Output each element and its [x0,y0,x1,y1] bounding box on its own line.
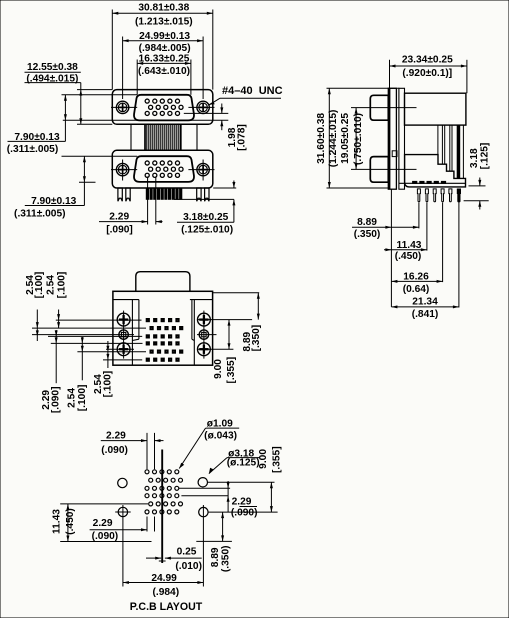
through-hole pins below base (6) [417,189,452,202]
rotated 1.98 [.078] [227,124,248,151]
svg-text:16.33±0.25: 16.33±0.25 [139,53,190,64]
left dim verticals/leaders [58,310,60,329]
svg-text:(.450): (.450) [65,508,76,535]
upper shell top/bottom extensions left [62,94,138,96]
plate notch above lower shell [392,151,397,157]
dim 16.33 extension lines [136,60,138,95]
svg-text:3.18±0.25: 3.18±0.25 [183,212,229,223]
right dim verticals [257,293,259,320]
upper shell pin holes (15) [145,99,183,115]
svg-text:(.494±.015): (.494±.015) [26,73,78,84]
rear hood [136,272,190,292]
svg-text:ø1.09: ø1.09 [207,418,233,429]
dim 2.29 pitch extension verticals [147,177,149,225]
svg-text:2.29: 2.29 [106,431,126,442]
leader o1.09 [206,427,240,429]
ear steps [113,299,139,301]
svg-text:(.010): (.010) [175,561,202,572]
svg-text:24.99±0.13: 24.99±0.13 [139,31,190,42]
top 2.29 dim line [101,440,147,442]
svg-text:2.29: 2.29 [232,496,252,507]
svg-text:(.450): (.450) [395,251,422,262]
dim 1.98 reference lines [184,112,229,114]
flange plate A [388,88,396,189]
pcb arrowheads [66,439,273,584]
rear screws left column [117,313,210,355]
svg-text:(.311±.005): (.311±.005) [14,209,65,220]
svg-text:[.355]: [.355] [272,446,283,473]
dim 2.29 line [99,221,148,223]
right reference lines [213,292,260,294]
dim 12.55 vertical [80,83,82,125]
left board lock prongs [118,188,209,201]
svg-text:(.311±.005): (.311±.005) [7,144,58,155]
svg-text:(1.213±.015): (1.213±.015) [135,16,193,27]
svg-text:(ø.043): (ø.043) [204,430,237,441]
upper connector bent pins descending [438,125,464,178]
24.99 dim line [123,582,203,584]
dim 3.18 pin length references [213,187,236,189]
svg-text:8.89: 8.89 [357,217,377,228]
svg-text:(.841): (.841) [412,309,439,320]
svg-text:2.29: 2.29 [109,211,129,222]
flange plate B [399,88,405,189]
mounting holes [118,478,208,517]
upper D-shell [134,95,194,121]
dim 19.05 centerline extensions [351,107,417,109]
svg-text:(.920±0.1)]: (.920±0.1)] [402,68,452,79]
dim 30.81 extension lines [111,10,113,90]
lower shell (side) [370,157,388,183]
svg-text:31.60±0.38: 31.60±0.38 [316,113,327,164]
rear view rotated texts [25,272,262,413]
front view dimension arrowheads [64,12,236,223]
svg-text:0.25: 0.25 [177,547,197,558]
lower shell pin holes (15) [145,161,183,177]
centerline (thick) [161,450,163,564]
svg-text:12.55±0.38: 12.55±0.38 [27,62,78,73]
svg-text:(.984): (.984) [152,587,179,598]
upper shell (side) [370,95,388,120]
dim 1.98 arrow verticals [221,104,223,114]
lower body block with stepped corner [405,155,466,187]
svg-text:(1.244±.015): (1.244±.015) [328,110,339,168]
svg-text:7.90±0.13: 7.90±0.13 [31,196,77,207]
svg-text:(.350): (.350) [354,229,381,240]
rear pin grid 6 rows x 5 [146,319,183,362]
left 11.43 [60,503,148,505]
lower connector flange [112,150,213,188]
svg-text:7.90±0.13: 7.90±0.13 [14,132,60,143]
dim 24.99 extension lines [122,37,124,100]
lower D-shell [134,156,194,182]
rear body [113,291,213,365]
svg-text:2.54: 2.54 [66,388,77,408]
contact tail comb under lower connector [146,188,182,199]
svg-text:(.750±.010): (.750±.010) [353,113,364,165]
dim 21.34 line [391,306,459,308]
svg-text:[.125]: [.125] [479,143,490,170]
svg-text:2.29: 2.29 [93,518,113,529]
svg-text:P.C.B LAYOUT: P.C.B LAYOUT [130,601,203,613]
svg-text:21.34: 21.34 [412,296,438,307]
mid stack body side walls [130,124,132,150]
dim 7.90 upper vertical + leader [64,95,66,142]
svg-text:23.34±0.25: 23.34±0.25 [402,55,453,66]
dim 3.18 pin protrusion right [469,185,486,187]
svg-text:(.643±.010): (.643±.010) [138,66,190,77]
svg-text:[.090]: [.090] [51,386,62,413]
svg-text:(.125±.010): (.125±.010) [181,225,233,236]
dim 3.18 arrow verticals + bar [233,181,235,189]
svg-text:#4–40 UNC: #4–40 UNC [222,85,283,97]
pin root blobs on base [413,181,446,183]
svg-text:9.00: 9.00 [213,359,224,379]
right 9.00 extensions [208,481,275,483]
svg-text:8.89: 8.89 [210,547,221,567]
pcb texts [92,418,260,613]
svg-text:(.350): (.350) [221,545,232,572]
svg-text:30.81±0.38: 30.81±0.38 [138,3,189,14]
svg-text:[.100]: [.100] [56,272,67,299]
right-mid 2.29 row lines [179,487,230,489]
pcb rotated texts [51,446,282,572]
upper connector flange [112,90,213,125]
mounting screws front view (4) [111,101,215,180]
top 2.29 extension verticals [146,433,148,469]
svg-text:(.090): (.090) [231,508,258,519]
screw crosshair ticks [111,107,215,180]
flange reference vertical [390,189,392,307]
svg-text:[.100]: [.100] [77,385,88,412]
dim 30.81 line [112,12,213,14]
rotated side view texts [316,110,490,170]
svg-text:9.00: 9.00 [258,449,269,469]
svg-text:19.05±0.25: 19.05±0.25 [340,113,351,164]
svg-text:11.43: 11.43 [397,240,422,251]
0.25 dim [146,557,161,559]
#4-40 leader [220,97,281,99]
rear view arrowheads [36,293,260,360]
side view arrowheads [328,65,482,309]
leader o3.18 [227,457,260,459]
svg-text:[.090]: [.090] [106,224,133,235]
svg-text:(.090): (.090) [101,445,128,456]
hole grid 6 rows x 5 [145,470,183,514]
lower shell top extension + stub [62,155,138,157]
dim 24.99 line [123,40,204,42]
svg-text:(0.64): (0.64) [403,284,430,295]
dim 11.43 line [384,249,427,251]
svg-text:(.090): (.090) [92,531,119,542]
dim 8.89 line [352,226,419,228]
svg-text:11.43: 11.43 [51,509,62,534]
dim 16.33 line [137,62,191,64]
svg-text:(ø.125): (ø.125) [227,458,260,469]
inner shroud walls [132,300,194,366]
svg-text:3.18: 3.18 [469,148,480,168]
dim 23.34 [389,60,391,89]
svg-text:24.99: 24.99 [151,573,177,584]
screw crosshair ticks vertical [124,311,204,359]
left-mid 2.29 [146,517,148,532]
svg-text:[.355]: [.355] [226,357,237,384]
dim 12.55 leader bars [25,71,81,73]
svg-text:[.100]: [.100] [103,371,114,398]
side view texts [354,55,453,320]
left row reference lines [56,319,142,321]
24.99 extension verticals [122,505,124,587]
svg-text:[.100]: [.100] [34,272,45,299]
dim 31.60 extension lines [327,87,400,89]
pin row extension verticals [418,203,420,229]
svg-text:[.078]: [.078] [237,124,248,151]
svg-text:2.54: 2.54 [46,275,57,295]
svg-text:16.26: 16.26 [403,272,429,283]
dim 16.26 line [391,280,442,282]
flange top/bottom extension stubs left [77,89,112,91]
svg-text:[.350]: [.350] [251,325,262,352]
base plate top line [399,182,466,184]
8.89 right dim [196,540,232,542]
hatched stack block [144,124,146,150]
front view dimension texts [7,3,283,236]
upper body block [405,93,466,125]
dim 7.90 lower vertical + leader bar [83,156,85,205]
